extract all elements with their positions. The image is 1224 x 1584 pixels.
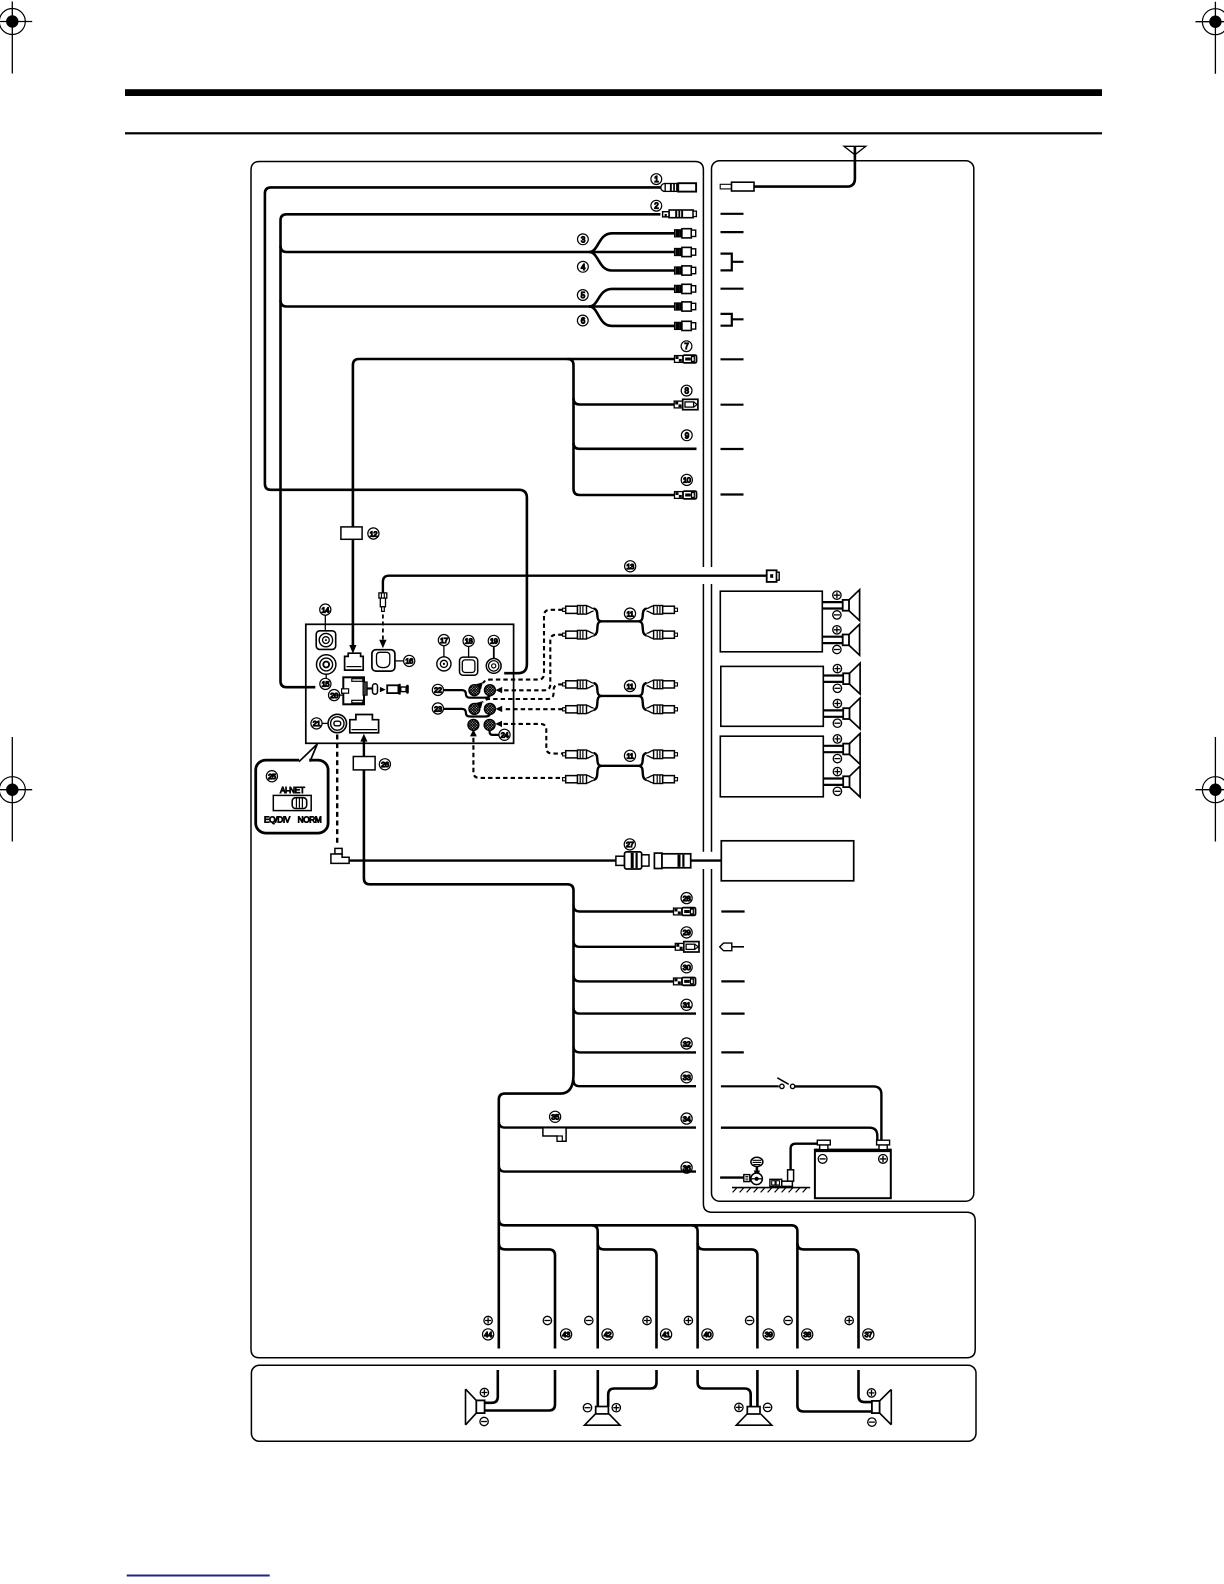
jack 18 (460, 646, 478, 675)
vehicle stub for wire 30 (721, 980, 744, 982)
svg-text:16: 16 (405, 657, 413, 666)
connector 2 mini antenna plug (663, 210, 697, 218)
connector RCA plug 5b (675, 302, 696, 311)
svg-text:31: 31 (683, 1001, 691, 1010)
RCA extension cable assembly 11c (563, 750, 678, 784)
label 39 (763, 1329, 774, 1340)
jack 17 (437, 646, 451, 672)
connector 28 bullet terminal (674, 908, 696, 916)
svg-text:25: 25 (268, 772, 276, 781)
label 1 (651, 174, 662, 185)
vehicle plug for wire 29 (720, 943, 744, 951)
svg-text:17: 17 (440, 636, 448, 645)
svg-text:26: 26 (381, 760, 389, 769)
speaker 3 (823, 663, 860, 694)
jack 15 (317, 655, 336, 679)
svg-text:39: 39 (765, 1330, 773, 1339)
wire 13 (remote control lead) (383, 576, 767, 593)
vehicle stub for wire 3 (721, 231, 744, 233)
connector 8 spade terminal (674, 399, 698, 409)
wire dashed RCA route A to jack 22L (483, 610, 563, 683)
ignition switch contacts (777, 1078, 795, 1089)
label 5 (577, 290, 588, 301)
wire 41 branch (598, 1243, 657, 1348)
wire dashed insert guide to jack 16 (382, 615, 384, 640)
svg-text:35: 35 (551, 1113, 559, 1122)
label 2 (651, 200, 662, 211)
connector 20 antenna adapter (334, 677, 409, 704)
fuse holder 35 (543, 1128, 566, 1142)
wire 6 lower branch (589, 307, 674, 326)
wire ignition switch feed (721, 1085, 779, 1087)
rear speaker B down-facing (583, 1404, 620, 1426)
wire 34 with fuse (499, 1122, 696, 1128)
wire 30 (574, 975, 674, 981)
chassis ground (732, 1188, 810, 1193)
wire trunk S-bend into lower harness (499, 1075, 574, 1349)
label 8 (681, 385, 692, 396)
label 4 (578, 261, 589, 272)
wire 37 to right speaker plus (859, 1370, 872, 1402)
svg-text:40: 40 (704, 1330, 712, 1339)
amplifier box 3 (720, 736, 823, 797)
wire speaker bus horizontal A (499, 1219, 798, 1348)
wire 27 Ai-NET bus cable (349, 859, 721, 861)
vehicle stub for wire 10 (721, 493, 744, 495)
svg-text:13: 13 (626, 562, 634, 571)
label 3 (578, 234, 589, 245)
vehicle stub for wire 5 (721, 288, 744, 290)
speaker 5 (823, 733, 860, 764)
label 28 (681, 893, 692, 904)
wire 42 drop (592, 1225, 598, 1348)
jack pair 23 (443, 701, 502, 716)
callout box 25 Ai-NET switch (256, 744, 328, 833)
label 37 (863, 1329, 874, 1340)
connector RCA plug 3b (675, 247, 696, 256)
CD changer box (721, 841, 853, 881)
battery (815, 1140, 891, 1198)
RCA extension cable assembly 11b (563, 680, 678, 714)
vehicle stub for wire 2 (721, 213, 744, 215)
svg-text:32: 32 (683, 1039, 691, 1048)
wire 41 to speaker B plus (608, 1370, 656, 1407)
wire dashed RCA route D to jack 23R (504, 708, 563, 710)
wire 4 lower branch (589, 252, 674, 271)
label 14 (320, 604, 331, 615)
wire 43 branch (499, 1243, 555, 1348)
wire trunk from adapter 26 to harness (364, 770, 574, 1075)
svg-text:11: 11 (626, 682, 633, 691)
wire dashed RCA route B to jack 22R (504, 635, 563, 691)
svg-text:30: 30 (683, 963, 691, 972)
label 27 (624, 839, 635, 850)
wire 29 (574, 941, 676, 947)
connector 27 DIN plug pair (616, 852, 691, 869)
wire 44 to left speaker plus (485, 1370, 498, 1403)
connector RCA plug 4 (675, 266, 696, 275)
vehicle stub for wire 28 (721, 910, 744, 912)
wire 43 to left speaker minus (485, 1370, 555, 1411)
label 38 (802, 1329, 813, 1340)
label 29 (681, 927, 692, 938)
svg-text:28: 28 (683, 894, 691, 903)
wire 9 branch (bare lead) (574, 443, 697, 449)
connector 7 bullet terminal (675, 355, 697, 363)
label 6 (577, 315, 588, 326)
ignition key (744, 1157, 763, 1184)
wire 3/4 trunk (front RCA pair) (281, 246, 675, 252)
wire dashed RCA route F to jack 24L (473, 738, 562, 778)
antenna receptacle in vehicle (720, 182, 754, 191)
svg-text:24: 24 (501, 731, 509, 740)
wire battery minus to ground (791, 1144, 818, 1170)
adapter 12 on power antenna lead (341, 527, 362, 654)
svg-text:Ai-NET: Ai-NET (280, 786, 305, 795)
wire 34 feed to battery plus (721, 1128, 877, 1141)
label 22 (432, 684, 443, 695)
wire dashed from jack 21 to Ai-NET plug (336, 735, 338, 847)
svg-text:15: 15 (322, 680, 330, 689)
speaker 6 (823, 766, 860, 797)
amplifier box 1 (720, 591, 822, 652)
polarity labels for wires 37-44 (484, 1316, 854, 1324)
wire 31 bare lead (574, 1008, 697, 1014)
vehicle stub for wire 9 (721, 448, 744, 450)
label 13 (625, 561, 636, 572)
svg-text:11: 11 (626, 609, 633, 618)
wire ACC to ignition key (720, 1176, 744, 1178)
svg-text:21: 21 (313, 719, 321, 728)
wire 1 (antenna extension lead) (265, 187, 661, 673)
connector 10 bullet terminal (675, 491, 697, 499)
label 42 (602, 1329, 613, 1340)
svg-text:19: 19 (490, 637, 498, 646)
label 17 (438, 635, 449, 646)
wire 2 (head unit antenna jumper) (281, 214, 661, 687)
label 30 (681, 962, 692, 973)
vehicle stub for wire 31 (721, 1012, 744, 1014)
speaker 2 front right (822, 624, 859, 655)
wire 5/6 trunk (rear RCA pair) (281, 300, 675, 306)
wire 37 branch (797, 1243, 858, 1348)
svg-text:43: 43 (562, 1330, 570, 1339)
wire arrow from 26 into Ai-NET socket (360, 734, 367, 757)
connector RCA plug 5a (675, 284, 696, 293)
svg-text:22: 22 (434, 686, 442, 695)
wire dashed RCA route E to jack 24R (504, 724, 563, 754)
svg-text:36: 36 (683, 1163, 691, 1172)
vehicle side group box (712, 161, 974, 1202)
jack 16 (372, 650, 404, 671)
svg-text:34: 34 (683, 1114, 691, 1123)
label 16 (404, 655, 415, 666)
vehicle junction bracket wires 3/4 (721, 254, 744, 271)
wire trunk 8-10 (567, 359, 674, 495)
ground terminal lug (770, 1170, 794, 1187)
speaker 1 front left (822, 590, 859, 621)
jack 19 (486, 646, 501, 673)
label 31 (681, 999, 692, 1010)
jack 21 (322, 714, 347, 732)
vehicle stub for wire 8 (721, 404, 744, 406)
label 11a (624, 608, 635, 619)
svg-text:12: 12 (370, 529, 378, 538)
wire 40 to speaker C plus (698, 1370, 751, 1407)
wire 28 (574, 905, 674, 911)
connector RCA plug 3a (675, 229, 696, 238)
wire 39 to speaker C (756, 1370, 759, 1407)
connector 13 interface plug (767, 570, 779, 582)
label 18 (463, 635, 474, 646)
speaker 4 (823, 698, 860, 729)
label 10 (681, 474, 692, 485)
jack pair 22 (443, 682, 502, 697)
rear speaker A left-facing (466, 1388, 489, 1425)
adapter 26 (353, 757, 375, 770)
vehicle stub for wire 7 (721, 358, 744, 360)
jack 14 (316, 615, 336, 649)
RCA extension cable assembly 11a (563, 606, 678, 640)
wire 36 bare lead (499, 1166, 696, 1172)
wire 39 branch (698, 1243, 758, 1348)
svg-text:38: 38 (803, 1330, 811, 1339)
wire 5 upper branch (589, 289, 674, 307)
label 7 (681, 341, 692, 352)
svg-text:11: 11 (626, 752, 633, 761)
svg-text:EQ/DIV: EQ/DIV (264, 815, 291, 824)
svg-text:NORM: NORM (298, 815, 322, 824)
vehicle junction bracket wires 5/6 (721, 314, 744, 326)
wire 40 drop (692, 1225, 698, 1348)
rear speaker D right-facing (867, 1389, 891, 1427)
label 9 (681, 430, 692, 441)
connector 1 antenna plug (661, 183, 696, 191)
wire switch to battery plus (795, 1086, 882, 1140)
connector RCA plug 6 (675, 321, 696, 330)
wire 8 branch (574, 398, 675, 404)
wire 38 to right speaker minus (797, 1370, 872, 1412)
label 26 (379, 759, 390, 770)
label 32 (681, 1038, 692, 1049)
svg-text:33: 33 (683, 1073, 691, 1082)
label 20 (329, 690, 340, 701)
rear speaker C down-facing (735, 1403, 772, 1425)
antenna symbol (754, 146, 866, 186)
label 40 (702, 1329, 713, 1340)
label 11c (624, 750, 635, 761)
svg-text:18: 18 (465, 637, 473, 646)
label 25 (266, 771, 277, 782)
wire 32 bare lead (574, 1046, 697, 1052)
label 33 (681, 1072, 692, 1083)
wire 42 to speaker B (596, 1370, 599, 1407)
svg-text:27: 27 (626, 840, 634, 849)
wire dashed RCA route C to jack 23L (483, 684, 563, 702)
svg-text:41: 41 (662, 1330, 670, 1339)
label 36 (681, 1162, 692, 1173)
label 35 (550, 1111, 561, 1122)
label 21 (311, 718, 322, 729)
vehicle stub for wire 32 (721, 1051, 744, 1053)
label 23 (432, 703, 443, 714)
svg-text:10: 10 (683, 476, 691, 485)
connector plug from 12 into deck (345, 653, 364, 670)
label 11b (624, 680, 635, 691)
label 34 (681, 1113, 692, 1124)
svg-text:20: 20 (330, 691, 338, 700)
connector 13 mini plug to deck (379, 593, 387, 611)
amplifier box 2 (721, 666, 824, 726)
label 43 (561, 1329, 572, 1340)
head unit accessory group box (L-shaped) (251, 162, 975, 1358)
connector 30 bullet terminal (674, 978, 696, 986)
label 19 (488, 635, 499, 646)
svg-text:37: 37 (864, 1330, 872, 1339)
wire 33 bare lead (574, 1080, 697, 1086)
label 12 (368, 528, 379, 539)
wire 3 upper branch (589, 233, 674, 252)
head unit rear panel (306, 624, 514, 743)
connector right-angle Ai-NET plug (331, 848, 349, 863)
label 15 (320, 678, 331, 689)
svg-text:14: 14 (321, 605, 329, 614)
Ai-NET socket on deck (350, 715, 379, 733)
jack pair 24 (468, 719, 502, 736)
rear speakers group box (251, 1365, 976, 1441)
svg-text:29: 29 (683, 928, 691, 937)
svg-text:42: 42 (604, 1330, 612, 1339)
svg-text:23: 23 (434, 704, 442, 713)
svg-text:44: 44 (484, 1330, 492, 1339)
label 24 (499, 729, 510, 740)
connector 29 spade terminal (675, 942, 699, 952)
label 44 (483, 1329, 494, 1340)
label 41 (661, 1329, 672, 1340)
wire 7 (power antenna lead) (353, 359, 674, 527)
